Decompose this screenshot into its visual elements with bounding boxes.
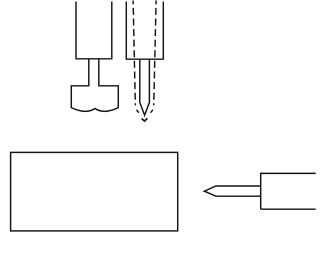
dashed drill outline right line bbox=[154, 1, 156, 106]
workpiece rectangle (bottom-left) bbox=[11, 152, 178, 231]
dashed drill taper dash left bbox=[136, 110, 139, 113]
dashed drill outline left line bbox=[133, 1, 135, 106]
cutter tool stem and head with scalloped bottom bbox=[71, 59, 118, 112]
solid tool body (top-right rectangle) bbox=[126, 2, 164, 60]
pointed tool body (bottom-right) bbox=[261, 173, 316, 209]
solid tool pointed tip bbox=[140, 59, 150, 115]
dashed drill taper dash right bbox=[151, 110, 154, 113]
cutter tool shank (top-left) bbox=[75, 2, 112, 59]
dashed drill point chevron bbox=[142, 118, 148, 121]
pointed tool shaft and tip bbox=[204, 186, 260, 196]
